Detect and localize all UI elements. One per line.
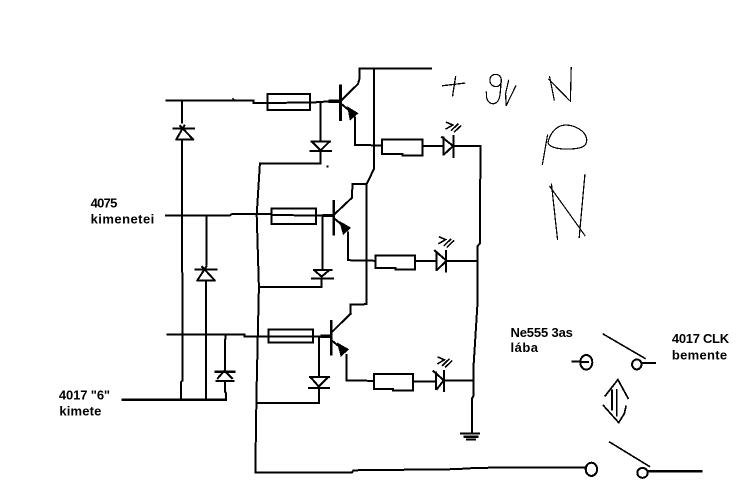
wire: Q2 emitter down and right to R5 (348, 233, 376, 261)
wire: LED3 to common column (445, 379, 473, 381)
diode D5 triangle (pointing down) (315, 271, 329, 277)
wire: through resistor R3 to Q3 base (268, 335, 330, 337)
LED1 light rays (446, 122, 460, 131)
wire: LED common column down to ground (472, 146, 480, 431)
LED3 light rays (438, 357, 452, 367)
LED1 triangle (442, 137, 453, 154)
resistor R5 (row 2 LED series) (376, 255, 415, 269)
wire: base wire through resistor R1 to Q1 (268, 101, 340, 103)
wire: Q2 collector to rail (353, 183, 367, 185)
switch SW1 left terminal wire (573, 361, 588, 363)
diode D6 triangle (pointing down) (311, 378, 327, 387)
LED2 triangle (435, 251, 447, 270)
wire: thick segment at Q1 base (330, 100, 340, 103)
svg-text:bemente: bemente (672, 348, 727, 363)
stray dot (327, 166, 329, 168)
svg-text:lába: lába (511, 340, 539, 355)
wire: through resistor R2 to Q2 base (271, 214, 333, 217)
resistor R2 (row 2 base) (271, 208, 316, 224)
switch SW2 left terminal circle (586, 463, 597, 476)
transistor Q3 collector (333, 314, 351, 331)
resistor R3 (row 3 base) (268, 329, 313, 342)
LED2 light rays (439, 237, 453, 247)
svg-text:4017 CLK: 4017 CLK (672, 331, 730, 346)
transistor Q3 bar (330, 321, 333, 354)
transistor Q3 emitter (333, 342, 340, 348)
wire: thick segment at Q3 base (322, 335, 330, 338)
diode D4 bottom bar (216, 380, 233, 382)
wire: D4 down to 4017 wire (225, 381, 226, 399)
switch SW1 arm (603, 334, 645, 358)
diode D5 top bar (314, 269, 332, 271)
transistor Q1 bar (339, 86, 342, 120)
wire: main vertical supply rail with jogs down to Q3 collector (350, 68, 374, 313)
wire: D6 down, left to long vertical (257, 388, 319, 403)
transistor Q2 emitter (335, 219, 343, 226)
svg-text:4075: 4075 (91, 195, 118, 210)
handwritten + sign (443, 77, 465, 96)
wire: SW1 right terminal (642, 362, 656, 364)
wire: Q3 emitter down and right to R6 (347, 355, 375, 381)
wire: row 1 input from 4075 (166, 100, 267, 103)
LED2 cathode bar (445, 251, 447, 272)
wire: 4017 "6" input horizontal (123, 399, 227, 401)
transistor Q2 collector (335, 184, 353, 214)
diode D6 top bar (310, 376, 329, 378)
svg-text:kimete: kimete (59, 404, 101, 419)
switch SW2 right contact circle (637, 468, 647, 478)
switch SW1 right contact circle (632, 359, 641, 369)
handwritten N (2nd) (550, 175, 585, 240)
svg-text:kimenetei: kimenetei (91, 211, 155, 226)
wire: +9V top rail horizontal (360, 67, 431, 69)
svg-text:Ne555 3as: Ne555 3as (511, 325, 573, 340)
handwritten 9V (486, 74, 515, 105)
wire: LED1 to common column (454, 145, 480, 147)
wire: D3 down, left to long vertical (260, 151, 321, 163)
diode D4 top bar (216, 371, 234, 373)
diode D5 (row 2 base diode) wire down (321, 216, 323, 269)
wire: D1 down through row2, row3 to 4017 wire (181, 139, 183, 399)
diode D4 triangle (pointing up) (218, 371, 232, 379)
diode D2 top bar (196, 269, 217, 271)
diode D3 bottom bar (311, 150, 332, 152)
wire: row 3 input from 4075 (168, 335, 269, 337)
LED3 triangle (433, 371, 443, 389)
wire: Q1 emitter down and right to R4 (355, 118, 382, 146)
resistor R1 (row 1 base) (268, 94, 310, 110)
resistor R4 (row 1 LED series) (382, 140, 422, 156)
transistor Q1 collector (342, 68, 360, 100)
LED1 cathode bar (452, 136, 454, 157)
LED3 cathode bar (443, 371, 445, 391)
diode D3 (row 1 base diode) wire down (320, 103, 322, 141)
transistor Q1 emitter arrowhead (348, 107, 358, 120)
diode D6 bottom bar (309, 387, 329, 389)
diode D1 branch: vertical from row 1 wire (181, 100, 183, 122)
wire: row 2 input from 4075 (166, 214, 271, 215)
diode D2 triangle (pointing up) (198, 267, 215, 281)
transistor Q2 emitter arrowhead (340, 222, 350, 234)
diode D1 top bar (174, 128, 194, 130)
transistor Q2 bar (332, 201, 335, 234)
resistor R6 (row 3 LED series) (374, 374, 413, 390)
wire: thick segment at Q2 base (324, 214, 333, 217)
diode D1 triangle (pointing up) (176, 126, 193, 140)
wire: D2 down to 4017 wire (205, 280, 207, 399)
mechanical link symbol between SW1 and SW2 (603, 380, 628, 423)
diode D2 branch: vertical from row 2 wire (206, 215, 208, 264)
switch SW1 left terminal circle (580, 355, 592, 370)
ground symbol (461, 434, 479, 440)
handwritten P (542, 125, 586, 164)
handwritten N (1st) (549, 68, 571, 102)
wire: R4 to LED1 (422, 145, 443, 147)
diode D3 triangle (pointing down) (313, 142, 329, 150)
transistor Q1 emitter (342, 105, 351, 112)
svg-text:4017 "6": 4017 "6" (59, 387, 110, 402)
wire: D5 down, left to long vertical (259, 279, 322, 288)
wire: SW2 right terminal (649, 470, 702, 473)
transistor Q3 emitter arrowhead (338, 343, 348, 356)
switch SW2 arm (610, 442, 650, 466)
wire: R5 to LED2 (415, 260, 437, 262)
diode D5 bottom bar (312, 278, 333, 280)
diode D6 (row 3 base diode) wire down (318, 336, 320, 375)
wire: long vertical from D3 net down to bottom rail (255, 164, 260, 473)
junction tick on row 1 wire (233, 99, 235, 100)
wire: bottom rail from long vertical to switch SW2 (255, 467, 585, 472)
diode D4 branch: vertical from row 3 wire (224, 335, 226, 370)
diode D3 top bar (311, 140, 330, 142)
wire: LED2 to common column (447, 260, 478, 262)
wire: R6 to LED3 (413, 381, 436, 383)
